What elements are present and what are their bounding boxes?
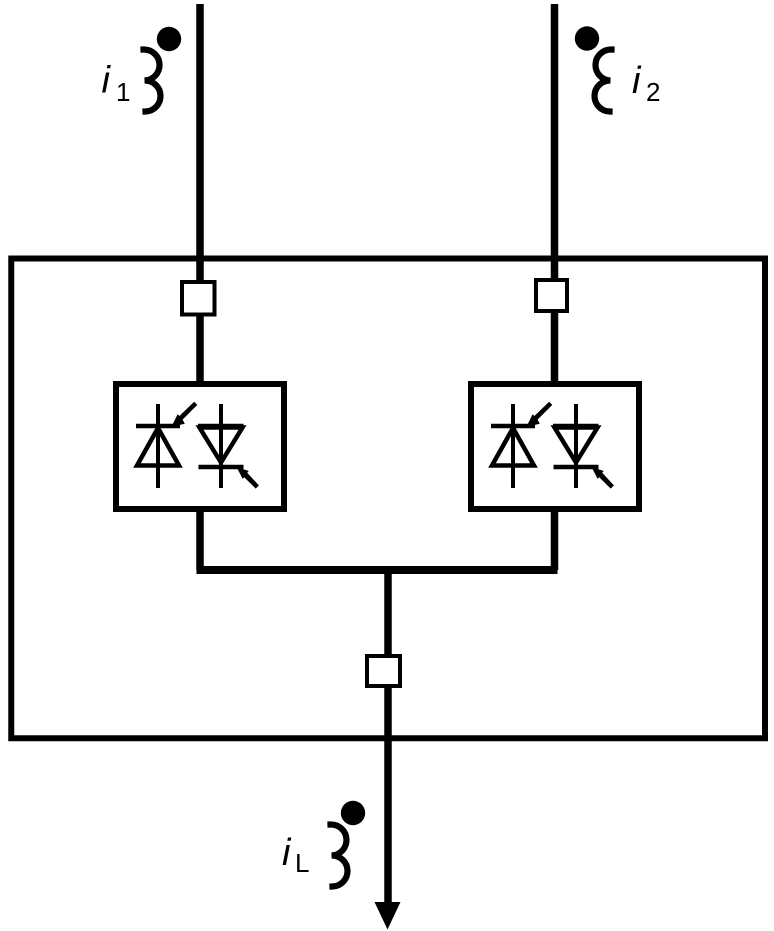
enclosure box (switch unit) <box>11 259 765 739</box>
node dot iL <box>341 801 365 825</box>
terminal square X2 (input 2) <box>536 280 567 311</box>
current arrow squiggle iL <box>331 824 348 886</box>
thyristor V2 anode bar <box>198 424 244 429</box>
thyristor V1 axis <box>156 404 160 488</box>
wire input 2 (vertical, right) <box>551 4 559 570</box>
wire output (vertical, center) <box>384 570 392 910</box>
wire bus (horizontal join) <box>197 566 558 574</box>
thyristor pair in U2 <box>491 402 614 489</box>
terminal square X3 (output) <box>367 656 400 686</box>
node dot i1 <box>157 27 181 51</box>
current arrow squiggle i2 <box>594 49 611 111</box>
thyristor V1 gate <box>172 402 198 427</box>
thyristor V2 gate <box>237 467 259 489</box>
wire input 1 (vertical, left) <box>196 4 204 570</box>
terminal square X1 (input 1) <box>182 282 215 315</box>
svg-text:2: 2 <box>646 77 660 107</box>
thyristor V2 axis <box>219 404 223 488</box>
thyristor V2 cathode bar <box>199 465 244 470</box>
thyristor pair in U1 <box>136 402 259 489</box>
thyristor module box U1 <box>116 384 284 509</box>
node dot i2 <box>575 26 599 50</box>
current arrow squiggle i1 <box>144 49 161 111</box>
thyristor V1 cathode bar <box>136 424 180 429</box>
thyristor module box U2 <box>471 384 639 509</box>
svg-text:1: 1 <box>116 77 130 107</box>
thyristor V2 triangle <box>200 428 243 463</box>
arrowhead output current <box>375 902 401 930</box>
thyristor V1 triangle <box>137 428 179 466</box>
svg-text:L: L <box>295 848 309 878</box>
